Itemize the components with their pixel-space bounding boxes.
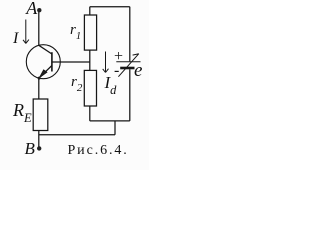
resistor r2 body xyxy=(84,70,96,106)
label node B xyxy=(25,139,35,159)
label current I xyxy=(13,30,18,48)
wire jog up to bottom rail xyxy=(114,121,116,135)
transistor Q1 emitter arrowhead xyxy=(39,70,47,78)
wire battery top lead xyxy=(129,7,131,62)
battery variable diagonal arrow xyxy=(118,54,138,77)
wire RE to node B xyxy=(38,131,40,148)
wire base to divider node xyxy=(52,61,90,63)
node B terminal dot xyxy=(37,146,41,150)
resistor RE body xyxy=(33,99,48,131)
wire emitter to RE xyxy=(38,78,40,99)
battery e negative plate xyxy=(120,67,134,70)
current I arrow xyxy=(23,20,29,44)
label resistor r1 xyxy=(70,22,81,42)
label resistor r2 xyxy=(71,74,82,94)
wire r2 bottom lead xyxy=(89,106,91,121)
wire B rail horizontal xyxy=(39,134,115,136)
transistor Q1 emitter stroke xyxy=(39,66,52,79)
emitter junction blob xyxy=(38,77,41,80)
transistor Q1 circle xyxy=(26,45,60,79)
label battery e xyxy=(134,60,142,82)
wire r1 top lead xyxy=(89,7,91,15)
wire bottom rail xyxy=(90,120,130,122)
label battery plus xyxy=(114,48,123,66)
current Id arrow xyxy=(103,52,109,73)
battery e positive plate xyxy=(116,61,140,63)
label resistor RE xyxy=(13,100,32,126)
wire r1-r2 middle lead xyxy=(89,50,91,70)
label battery minus xyxy=(114,62,119,80)
transistor Q1 base bar xyxy=(51,52,53,71)
label current Id xyxy=(105,73,117,98)
wire A-collector xyxy=(38,12,40,46)
caption Fig 6.4 xyxy=(68,143,129,159)
node A terminal dot xyxy=(37,8,41,12)
wire top rail xyxy=(90,6,130,8)
label node A xyxy=(26,0,37,19)
wire battery bottom lead xyxy=(129,69,131,121)
transistor Q1 collector stroke xyxy=(39,45,52,54)
resistor r1 body xyxy=(84,15,96,50)
